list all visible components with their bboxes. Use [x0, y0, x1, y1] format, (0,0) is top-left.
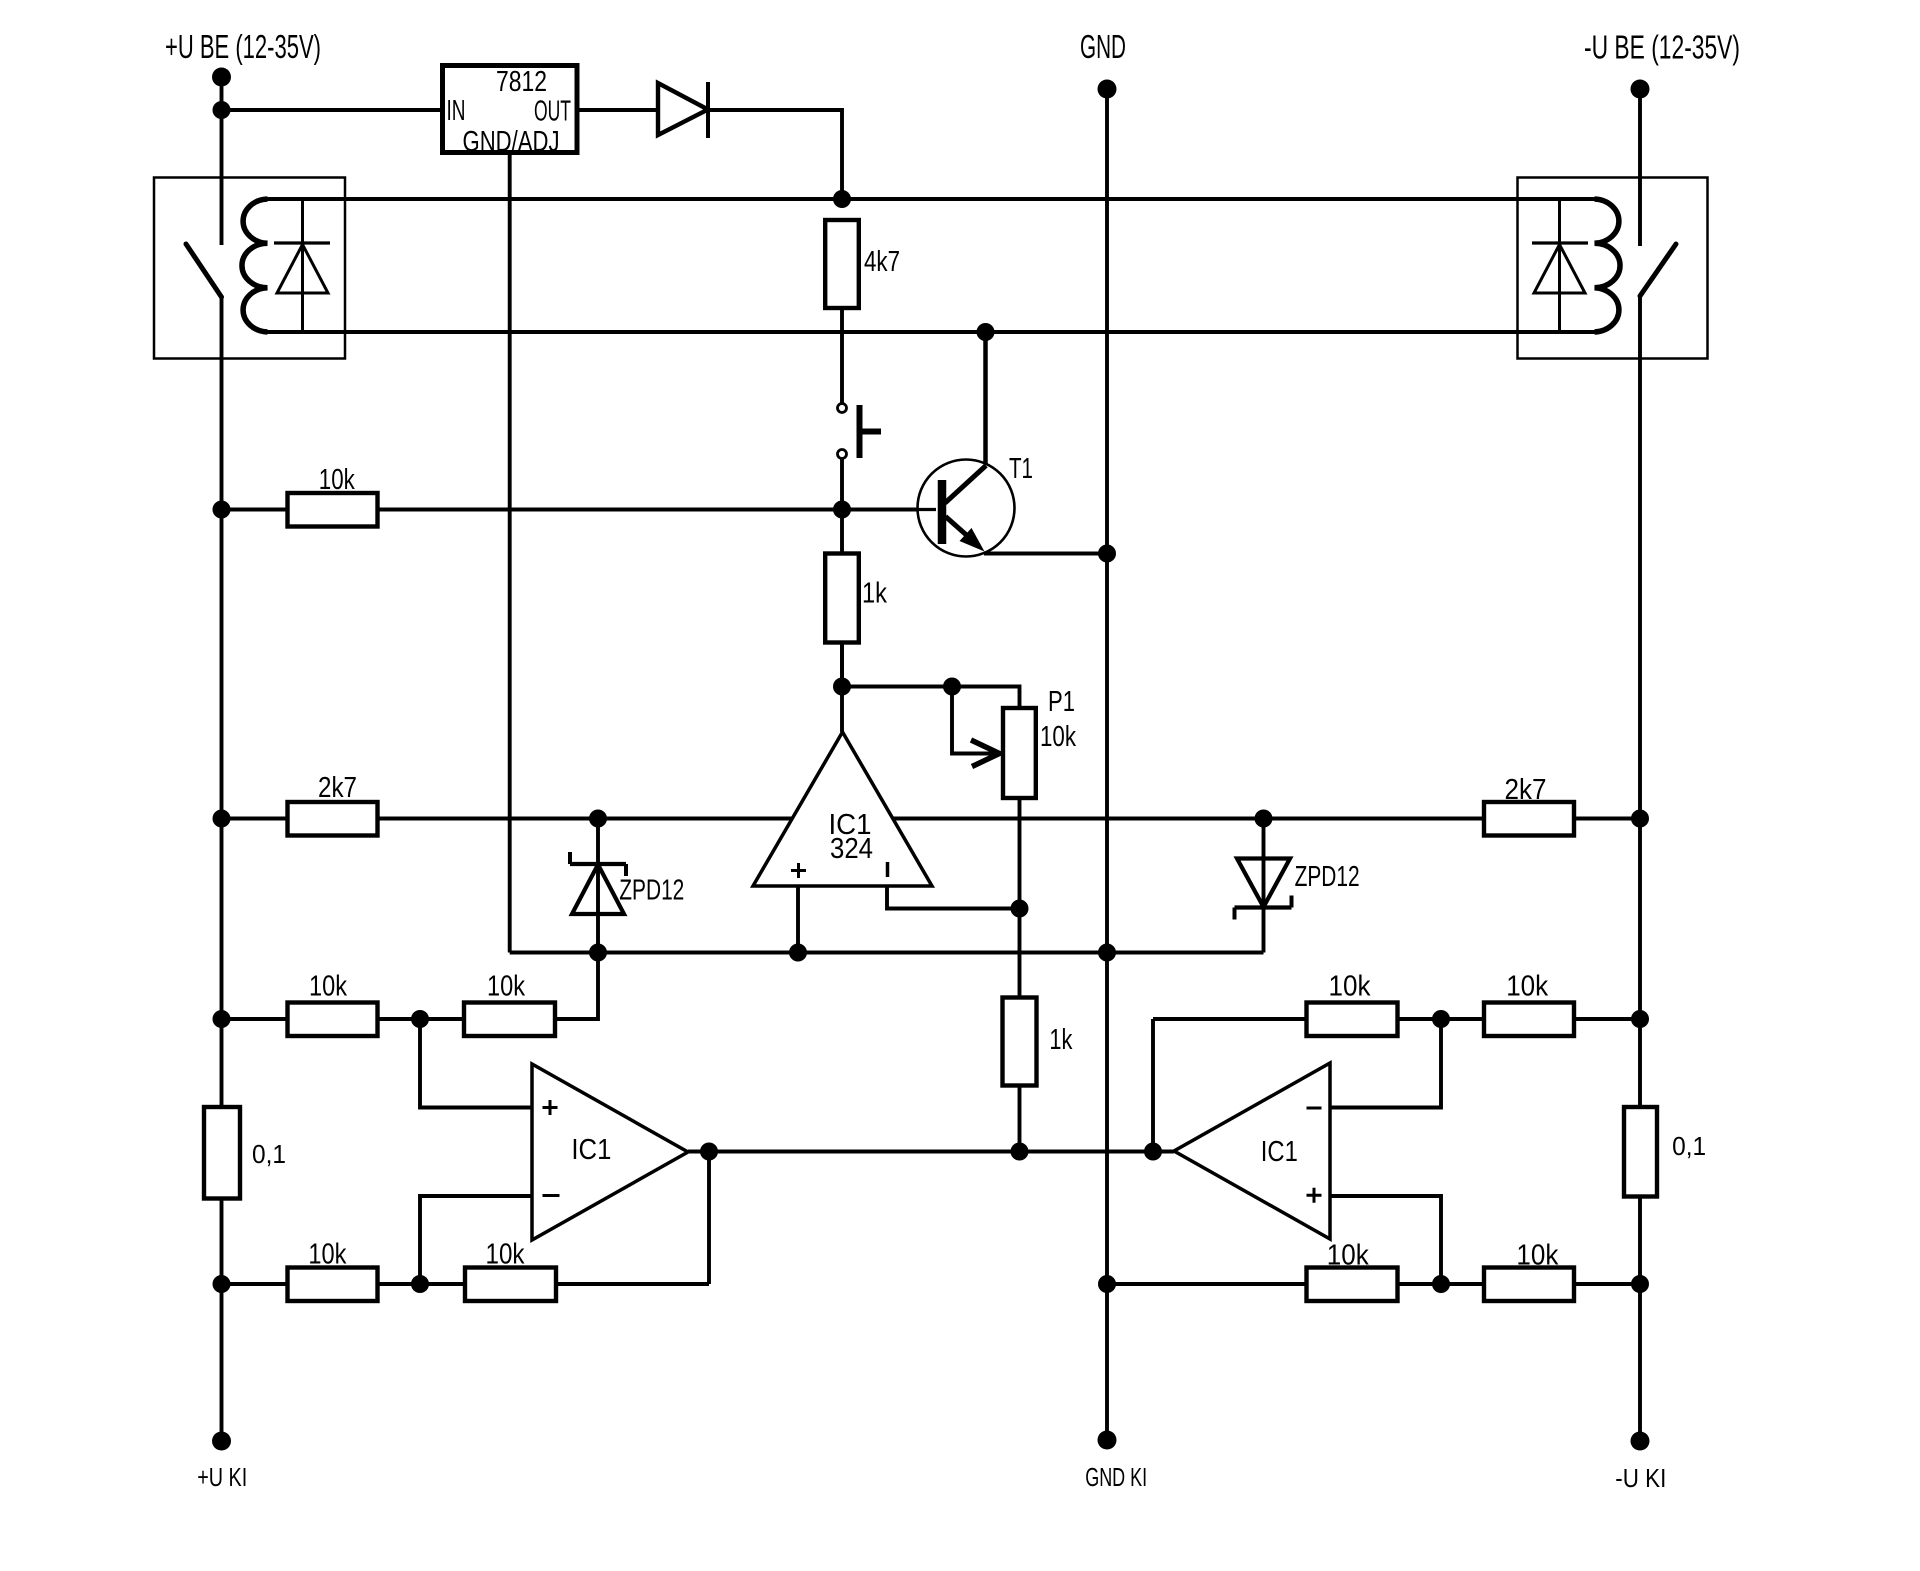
wire node B to P1 top corner — [842, 687, 1020, 709]
opamp U2 plus mark — [543, 1100, 558, 1115]
opamp U3 IC1 triangle — [1174, 1063, 1330, 1239]
transistor T1 base bar — [938, 480, 947, 544]
opamp U1 IC1-324 triangle — [753, 732, 932, 886]
wire +UBE to 7812 IN — [222, 108, 443, 112]
node junction D — [411, 1275, 429, 1293]
wire 2k7 row y=818.5 — [222, 817, 1641, 821]
zener ZPD12 left cathode tick down — [624, 864, 628, 876]
node junction B 1k bottom — [833, 678, 851, 696]
diode D1 triangle — [658, 83, 708, 135]
resistor 10k upper-left 1 — [288, 1003, 378, 1037]
wire GND rail — [1105, 89, 1109, 1440]
wire +UBE rail lower segment — [220, 297, 224, 1441]
svg-text:+U BE (12-35V): +U BE (12-35V) — [165, 28, 321, 65]
relay K2 damper diode triangle — [1534, 245, 1585, 294]
resistor 10k lower-left 2 — [465, 1268, 556, 1302]
opamp U1 inverting mark — [886, 862, 890, 877]
node junction C — [411, 1010, 429, 1028]
svg-text:OUT: OUT — [534, 96, 571, 128]
resistor 1k R3 — [825, 554, 859, 643]
diode D1 cathode bar — [706, 82, 710, 138]
wire +UBE rail upper segment — [220, 77, 224, 245]
svg-text:10k: 10k — [308, 1239, 346, 1271]
resistor 0,1 right — [1624, 1107, 1657, 1197]
resistor 0,1 left — [204, 1107, 240, 1199]
wire relay coil top row y=199 — [268, 197, 1595, 201]
svg-text:IC1: IC1 — [1261, 1136, 1298, 1168]
wire node F to U3 plus input — [1330, 1196, 1441, 1284]
node junction U1 plus bus — [789, 944, 807, 962]
regulator 7812 box — [443, 66, 578, 153]
wire upper-right 10k chain y=1019 — [1153, 1017, 1640, 1021]
relay K1 damper diode cathode bar — [274, 241, 330, 244]
resistor 10k lower-left 1 — [288, 1268, 378, 1302]
svg-text:-U KI: -U KI — [1615, 1463, 1666, 1493]
relay K1 coil — [242, 199, 268, 332]
opamp U3 minus mark — [1307, 1107, 1322, 1110]
node junction emitter GND — [1098, 545, 1116, 563]
node junction left rail base row — [213, 501, 231, 519]
resistor 1k R6 — [1003, 998, 1037, 1086]
resistor 10k upper-right 1 — [1307, 1003, 1398, 1037]
node junction right rail 10k row — [1631, 1010, 1649, 1028]
zener ZPD12 left cathode tick up — [568, 852, 572, 864]
node junction F — [1432, 1275, 1450, 1293]
svg-text:10k: 10k — [1040, 721, 1076, 753]
relay K2 box — [1518, 178, 1708, 359]
relay K1 box — [154, 178, 345, 359]
opamp U3 plus mark — [1307, 1188, 1322, 1203]
resistor 10k upper-left 2 — [464, 1003, 555, 1037]
resistor 10k lower-right 1 — [1307, 1268, 1398, 1302]
svg-text:-U BE (12-35V): -U BE (12-35V) — [1584, 29, 1740, 66]
svg-text:2k7: 2k7 — [1505, 774, 1547, 806]
node terminal +UBE — [212, 68, 231, 87]
wire opamp U1 apex lead — [840, 643, 844, 733]
transistor T1 emitter diagonal — [946, 517, 977, 544]
wire lower-left 10k row y=1284 — [222, 1282, 710, 1286]
wire upper-left 10k chain y=1019 — [222, 1017, 599, 1021]
wire U1 inverting input lead — [887, 886, 1020, 909]
relay K2 damper diode cathode bar — [1532, 241, 1588, 244]
node junction wiper branch — [943, 678, 961, 696]
wire -UBE rail upper segment — [1638, 89, 1642, 246]
resistor 10k lower-right 2 — [1484, 1268, 1574, 1302]
zener ZPD12 left cathode bar — [570, 862, 626, 866]
wire 1k R6 bottom lead — [1018, 1086, 1022, 1152]
svg-text:4k7: 4k7 — [864, 246, 900, 278]
opamp U1 plus mark — [791, 863, 806, 878]
svg-text:10k: 10k — [1516, 1240, 1558, 1272]
relay K2 coil — [1595, 199, 1621, 332]
node junction GND lower 10k — [1098, 1275, 1116, 1293]
wire U3 feedback up — [1151, 1019, 1155, 1152]
node junction left rail 2k7 row — [213, 810, 231, 828]
node junction right rail lower 10k — [1631, 1275, 1649, 1293]
relay K2 damper diode wire — [1558, 199, 1561, 332]
zener ZPD12 right cathode bar — [1235, 905, 1292, 909]
svg-text:ZPD12: ZPD12 — [1295, 861, 1360, 893]
wire -UBE rail lower segment — [1638, 296, 1642, 1441]
node junction left zener top — [589, 810, 607, 828]
wire left zener branch down to 10k chain — [555, 819, 598, 1020]
node junction U1 minus P1 — [1011, 900, 1029, 918]
svg-text:P1: P1 — [1048, 686, 1075, 718]
svg-text:0,1: 0,1 — [252, 1139, 286, 1169]
svg-text:GND KI: GND KI — [1085, 1462, 1147, 1492]
wire node D to U2 minus input — [420, 1196, 532, 1284]
transistor T1 base wire into circle — [910, 508, 936, 511]
node junction +UBE/IN — [213, 101, 231, 119]
node terminal -UKI — [1631, 1432, 1650, 1451]
wire2 GND/ADJ bus y=952.5 — [510, 951, 1264, 955]
svg-text:10k: 10k — [1329, 971, 1371, 1003]
zener ZPD12 right cathode tick up — [1290, 896, 1294, 908]
wire 7812 OUT to diode — [577, 108, 658, 112]
resistor 10k upper-right 2 — [1484, 1003, 1574, 1037]
svg-text:10k: 10k — [309, 971, 347, 1003]
svg-text:1k: 1k — [1049, 1024, 1072, 1056]
resistor 2k7 right — [1484, 802, 1574, 836]
transistor T1 emitter arrow — [960, 528, 985, 552]
relay K2 switch blade — [1640, 244, 1676, 296]
wire relay coil bottom row y=332 — [268, 330, 1595, 334]
resistor 10k base row — [288, 493, 378, 527]
transistor T1 circle — [918, 460, 1015, 557]
svg-text:T1: T1 — [1009, 453, 1033, 485]
wire base row 10k R2 y=509.5 — [222, 508, 937, 512]
node junction right rail 2k7 row — [1631, 810, 1649, 828]
zener ZPD12 right triangle — [1237, 859, 1290, 908]
svg-text:IN: IN — [447, 95, 466, 127]
node junction 1k R6 bottom — [1011, 1143, 1029, 1161]
svg-text:10k: 10k — [1506, 971, 1548, 1003]
potentiometer P1 wiper arrow — [971, 740, 1000, 767]
svg-text:10k: 10k — [486, 1239, 525, 1271]
wire node C to U2 plus input — [420, 1019, 532, 1108]
svg-text:10k: 10k — [319, 464, 355, 496]
transistor T1 collector diagonal — [945, 466, 986, 504]
opamp U2 IC1 triangle — [532, 1064, 688, 1240]
svg-text:GND/ADJ: GND/ADJ — [463, 126, 560, 158]
node junction right zener top — [1255, 810, 1273, 828]
node junction 4k7 top — [833, 190, 851, 208]
node junction U3 input bus — [1144, 1143, 1162, 1161]
pushbutton S1 bottom contact — [838, 450, 847, 459]
node junction E — [1432, 1010, 1450, 1028]
resistor 4k7 — [825, 220, 859, 308]
wire P1 bottom lead to 1k R6 — [1018, 798, 1022, 998]
node junction GND bus2 — [1098, 944, 1116, 962]
node junction U2 output — [700, 1143, 718, 1161]
wire T1 emitter to GND — [984, 552, 1107, 556]
node junction collector branch — [977, 323, 995, 341]
wire diode to 4k7 top corner — [708, 110, 842, 199]
wire 4k7 bottom to pushbutton — [840, 308, 844, 404]
wire3 output bus y=1151.5 — [688, 1150, 1174, 1154]
svg-text:10k: 10k — [487, 971, 525, 1003]
svg-text:324: 324 — [830, 833, 873, 865]
wire pushbutton to base node and 1k R3 — [840, 459, 844, 687]
zener ZPD12 left triangle — [572, 865, 624, 915]
pushbutton S1 actuator bar — [857, 405, 863, 458]
wire lower-right 10k row y=1284 — [1107, 1282, 1640, 1286]
svg-text:10k: 10k — [1327, 1240, 1369, 1272]
node junction left rail lower 10k — [213, 1275, 231, 1293]
svg-text:7812: 7812 — [496, 66, 547, 98]
svg-text:2k7: 2k7 — [318, 772, 357, 804]
svg-text:1k: 1k — [862, 578, 887, 610]
wire T1 collector vertical — [983, 332, 988, 466]
node terminal -UBE — [1631, 80, 1650, 99]
svg-text:IC1: IC1 — [571, 1134, 611, 1166]
pushbutton S1 actuator stem — [860, 429, 882, 435]
zener ZPD12 right cathode tick down — [1233, 908, 1237, 920]
node junction left zener bottom — [589, 944, 607, 962]
opamp U2 minus mark — [543, 1194, 560, 1197]
svg-text:GND: GND — [1080, 28, 1126, 65]
wire U2 feedback down — [707, 1152, 711, 1285]
node junction base node — [833, 501, 851, 519]
pushbutton S1 top contact — [838, 404, 847, 413]
node junction left rail 10k row — [213, 1010, 231, 1028]
relay K1 damper diode wire — [301, 199, 304, 332]
wire U1 noninverting input lead — [796, 886, 800, 953]
svg-text:0,1: 0,1 — [1672, 1131, 1706, 1161]
relay K1 switch blade — [186, 244, 222, 297]
svg-text:+U KI: +U KI — [197, 1462, 247, 1492]
resistor 2k7 left — [288, 802, 378, 836]
node terminal GND — [1098, 80, 1117, 99]
svg-text:ZPD12: ZPD12 — [619, 875, 684, 907]
wire P1 wiper stem — [952, 687, 997, 754]
node terminal +UKI — [212, 1432, 231, 1451]
node terminal GNDKI — [1098, 1431, 1117, 1450]
relay K1 damper diode triangle — [277, 245, 328, 294]
wire node E to U3 minus input — [1330, 1019, 1441, 1108]
wire 7812 GND/ADJ vertical — [508, 153, 512, 953]
potentiometer P1 body — [1003, 708, 1036, 798]
wire right zener branch — [1262, 819, 1266, 953]
